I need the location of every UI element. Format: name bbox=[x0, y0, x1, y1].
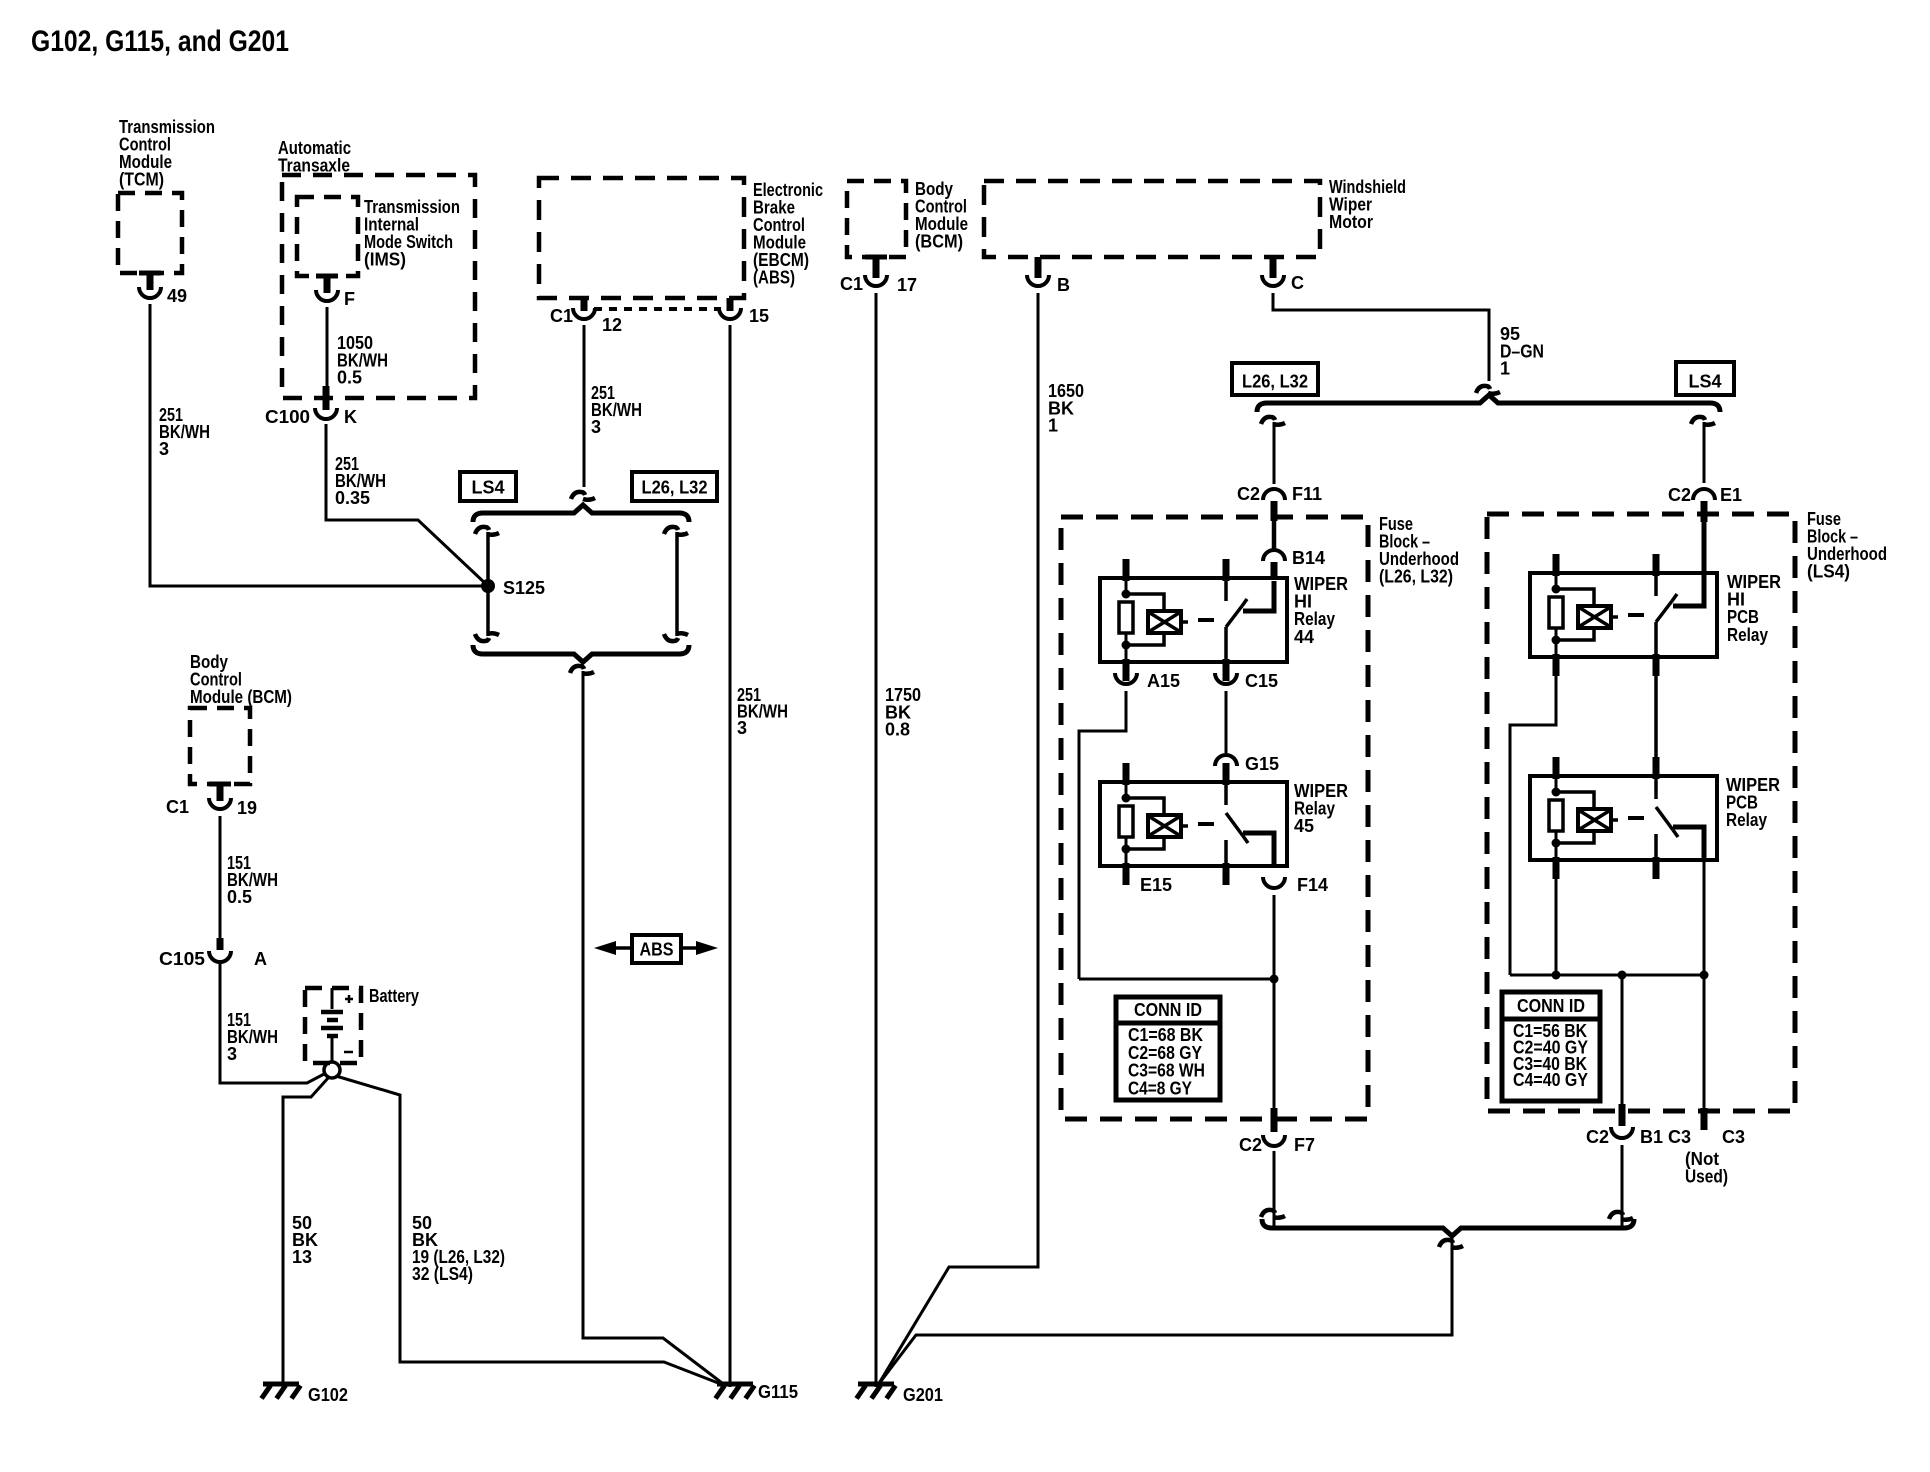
battery plates bbox=[321, 1010, 343, 1015]
svg-text:C2: C2 bbox=[1239, 1135, 1262, 1155]
svg-text:Used): Used) bbox=[1685, 1167, 1728, 1187]
label box LS4 (right) bbox=[1676, 362, 1734, 395]
connector arc pin F bbox=[316, 290, 338, 301]
wire A15 branch bbox=[1079, 691, 1126, 979]
wire 151 BK/WH 0.5 bbox=[219, 816, 222, 938]
svg-text:F14: F14 bbox=[1297, 875, 1328, 895]
relay WIPER PCB Relay bbox=[1530, 776, 1717, 860]
svg-text:C4=40 GY: C4=40 GY bbox=[1513, 1070, 1588, 1090]
svg-text:K: K bbox=[344, 407, 357, 427]
wire HI PCB switch output to PCB relay bbox=[1654, 676, 1658, 779]
svg-text:C100: C100 bbox=[265, 407, 310, 427]
svg-text:0.35: 0.35 bbox=[335, 488, 370, 508]
svg-text:3: 3 bbox=[591, 417, 601, 437]
svg-text:0.8: 0.8 bbox=[885, 720, 910, 740]
module Electronic Brake Control Module (dashed box) bbox=[539, 178, 744, 298]
module Body Control Module BCM top (dashed box) bbox=[847, 181, 906, 257]
connector arc C2 F7 bbox=[1263, 1135, 1285, 1146]
svg-text:G102, G115, and G201: G102, G115, and G201 bbox=[31, 25, 289, 58]
battery negative lead bbox=[331, 1038, 334, 1062]
svg-text:Battery: Battery bbox=[369, 986, 419, 1006]
wire break below merge brace bbox=[1439, 1240, 1463, 1248]
relay WIPER Relay 45 bbox=[1100, 782, 1287, 866]
ground G201 bbox=[858, 1382, 894, 1387]
svg-text:CONN ID: CONN ID bbox=[1517, 996, 1585, 1016]
svg-text:G201: G201 bbox=[903, 1385, 943, 1405]
svg-text:L26, L32: L26, L32 bbox=[1242, 372, 1308, 392]
connector arc C2 B1 bbox=[1611, 1127, 1633, 1138]
svg-text:(L26, L32): (L26, L32) bbox=[1379, 567, 1453, 587]
module Body Control Module left (dashed box) bbox=[190, 708, 250, 784]
wire break F7 bbox=[1261, 1210, 1285, 1218]
pin stub B1 bbox=[1619, 1104, 1626, 1126]
merge brace bottom right bbox=[1262, 1219, 1634, 1236]
svg-text:ABS: ABS bbox=[640, 940, 674, 960]
wire F11 to B14 bbox=[1272, 521, 1277, 550]
svg-text:C2: C2 bbox=[1668, 485, 1691, 505]
wire F14 down bbox=[1273, 895, 1276, 1108]
connector arc C1 17 bbox=[865, 275, 887, 286]
wire to fuse block E1 bbox=[1703, 422, 1706, 483]
svg-text:3: 3 bbox=[227, 1044, 237, 1064]
junction dot B1 drop bbox=[1618, 971, 1627, 980]
svg-text:C2: C2 bbox=[1237, 484, 1260, 504]
pin bar BCM C1 19 bbox=[209, 782, 231, 787]
svg-text:17: 17 bbox=[897, 275, 917, 295]
pin stub EBCM 12 bbox=[581, 298, 588, 311]
pin stub B14 bbox=[1271, 562, 1278, 580]
wire E1 into block bbox=[1702, 521, 1707, 577]
pin bar IMS bbox=[316, 274, 338, 279]
ABS circuit arrow right bbox=[679, 946, 698, 950]
connector arc C100 K bbox=[315, 408, 337, 419]
ground G102 bbox=[263, 1382, 299, 1387]
connector arc pin 12 bbox=[573, 308, 595, 319]
wire battery node to G115 (50 BK) bbox=[336, 1076, 726, 1386]
svg-text:Module (BCM): Module (BCM) bbox=[190, 687, 292, 707]
svg-text:(IMS): (IMS) bbox=[364, 250, 406, 270]
svg-text:Relay: Relay bbox=[1726, 810, 1767, 830]
svg-text:G15: G15 bbox=[1245, 754, 1279, 774]
ground G115 bbox=[717, 1382, 753, 1387]
fuse block underhood LS4 (dashed box) bbox=[1487, 514, 1795, 1111]
wire 1650 BK to G201 bbox=[878, 293, 1038, 1385]
wire to fuse block F11 bbox=[1273, 422, 1276, 484]
option wire LS4 break top bbox=[475, 527, 499, 535]
svg-text:C1: C1 bbox=[166, 797, 189, 817]
battery positive lead bbox=[331, 988, 334, 1009]
svg-text:Transaxle: Transaxle bbox=[278, 156, 350, 176]
svg-text:B14: B14 bbox=[1292, 548, 1325, 568]
pin stub F11 bbox=[1271, 501, 1278, 521]
relay WIPER HI Relay 44 bbox=[1100, 578, 1287, 662]
label box L26, L32 (engine option) bbox=[632, 472, 717, 501]
svg-text:CONN ID: CONN ID bbox=[1134, 1000, 1202, 1020]
wire PCB coil output down bbox=[1555, 858, 1558, 975]
svg-text:C4=8 GY: C4=8 GY bbox=[1128, 1078, 1192, 1098]
pin stub BCM 19 bbox=[217, 784, 224, 801]
pin stub F7 bbox=[1271, 1108, 1278, 1132]
connector arc A15 bbox=[1115, 673, 1137, 684]
pin stub EBCM 15 bbox=[727, 298, 734, 311]
connector arc B14 bbox=[1263, 550, 1285, 561]
svg-text:13: 13 bbox=[292, 1247, 312, 1267]
svg-text:1: 1 bbox=[1500, 359, 1510, 379]
connector arc G15 bbox=[1215, 755, 1237, 766]
box Automatic Transaxle (dashed) bbox=[282, 175, 475, 398]
pin stub C3 (not used) bbox=[1701, 1108, 1708, 1130]
module TCM (dashed box) bbox=[118, 193, 182, 273]
wire break above option brace bbox=[571, 492, 595, 500]
relay WIPER HI PCB Relay bbox=[1530, 573, 1717, 657]
pin stub TCM 49 bbox=[147, 273, 154, 290]
connector arc C2 F11 bbox=[1263, 489, 1285, 500]
pin stub BCM 17 bbox=[873, 257, 880, 278]
conn id table L26/L32 bbox=[1116, 997, 1220, 1100]
wire 1050 BK/WH bbox=[326, 307, 329, 386]
svg-text:B1: B1 bbox=[1640, 1127, 1663, 1147]
svg-text:C15: C15 bbox=[1245, 671, 1278, 691]
svg-text:B: B bbox=[1057, 275, 1070, 295]
svg-text:A: A bbox=[254, 949, 267, 969]
wire break B1 bbox=[1609, 1212, 1633, 1220]
connector arc pin C bbox=[1262, 275, 1284, 286]
wire B1 to merge brace bbox=[1621, 1145, 1624, 1227]
svg-text:F: F bbox=[344, 289, 355, 309]
connector arc C15 bbox=[1215, 673, 1237, 684]
svg-text:Relay: Relay bbox=[1727, 625, 1768, 645]
svg-text:19: 19 bbox=[237, 798, 257, 818]
option wire LS4 bbox=[486, 532, 490, 636]
svg-text:F7: F7 bbox=[1294, 1135, 1315, 1155]
svg-text:49: 49 bbox=[167, 286, 187, 306]
option wire L26/L32 bbox=[675, 532, 679, 636]
wire 151 BK/WH 3 to battery node bbox=[220, 964, 326, 1083]
ABS circuit arrow left bbox=[614, 946, 634, 950]
connector arc F14 bbox=[1263, 877, 1285, 888]
svg-text:32 (LS4): 32 (LS4) bbox=[412, 1264, 473, 1284]
battery plus sign bbox=[345, 995, 353, 1003]
svg-text:LS4: LS4 bbox=[1688, 372, 1721, 392]
svg-text:1: 1 bbox=[1048, 416, 1058, 436]
svg-text:15: 15 bbox=[749, 306, 769, 326]
wire PCB relay output down bbox=[1703, 860, 1706, 975]
option brace lower bbox=[473, 645, 689, 662]
wire break above right option brace bbox=[1476, 386, 1500, 394]
battery minus sign bbox=[344, 1051, 353, 1054]
wire to G115 from splice network bbox=[583, 671, 726, 1386]
option brace upper bbox=[473, 505, 689, 522]
junction line relay 44/45 outputs bbox=[1079, 978, 1274, 981]
svg-text:(LS4): (LS4) bbox=[1807, 562, 1850, 582]
wire 1750 BK to G201 bbox=[875, 293, 878, 1387]
junction dot coil bbox=[1552, 971, 1561, 980]
pin stub E15 bbox=[1123, 863, 1130, 884]
wire C15 to G15 bbox=[1225, 691, 1228, 753]
wire F7 to merge brace bbox=[1273, 1151, 1276, 1227]
pin stub motor C bbox=[1270, 257, 1277, 278]
svg-text:C1: C1 bbox=[550, 306, 573, 326]
svg-text:E1: E1 bbox=[1720, 485, 1742, 505]
option wire break to F11 bbox=[1261, 417, 1285, 425]
svg-text:C3: C3 bbox=[1668, 1127, 1691, 1147]
pin stub G15 bbox=[1223, 765, 1230, 784]
module Transmission Internal Mode Switch (dashed box) bbox=[297, 197, 358, 276]
option wire L26/L32 break top bbox=[664, 527, 688, 535]
option brace right bbox=[1257, 395, 1720, 412]
svg-text:3: 3 bbox=[737, 718, 747, 738]
fuse block underhood L26/L32 (dashed box) bbox=[1061, 517, 1368, 1119]
wire 251 BK/WH from pin 12 bbox=[583, 325, 586, 487]
splice S125 bbox=[481, 579, 495, 593]
junction dot relay output bbox=[1700, 971, 1709, 980]
pin stub IMS F bbox=[324, 276, 331, 293]
junction line LS4 outputs bbox=[1510, 974, 1704, 977]
wire 251 BK/WH 0.35 to S125 bbox=[326, 424, 487, 585]
pin bar BCM C1 17 bbox=[865, 255, 887, 260]
label box L26, L32 (right) bbox=[1232, 363, 1318, 395]
svg-text:E15: E15 bbox=[1140, 875, 1172, 895]
svg-text:F11: F11 bbox=[1292, 484, 1322, 504]
wire break below lower brace bbox=[570, 666, 594, 674]
label box LS4 (engine option) bbox=[460, 472, 516, 501]
svg-text:Motor: Motor bbox=[1329, 212, 1373, 232]
connector arc pin 49 bbox=[139, 287, 161, 298]
pin bar TCM bbox=[139, 271, 161, 276]
svg-text:S125: S125 bbox=[503, 578, 545, 598]
svg-text:G102: G102 bbox=[308, 1385, 348, 1405]
svg-text:12: 12 bbox=[602, 315, 622, 335]
option wire L26/L32 break bottom bbox=[664, 633, 688, 641]
pin stub C100 K bbox=[323, 386, 330, 410]
svg-text:C2: C2 bbox=[1586, 1127, 1609, 1147]
connector arc C105 A bbox=[209, 951, 231, 962]
svg-text:(BCM): (BCM) bbox=[915, 232, 963, 252]
pin stub motor B bbox=[1035, 257, 1042, 278]
option wire LS4 break bottom bbox=[475, 633, 499, 641]
svg-text:0.5: 0.5 bbox=[227, 887, 252, 907]
option wire break to E1 bbox=[1691, 417, 1715, 425]
pin stub E1 bbox=[1701, 501, 1708, 522]
pin stub C105 A bbox=[217, 938, 224, 950]
module Windshield Wiper Motor (dashed box) bbox=[984, 181, 1320, 257]
wire 95 D-GN from pin C bbox=[1273, 293, 1489, 381]
ground wire to G201 bbox=[878, 1236, 1452, 1385]
connector arc C2 E1 bbox=[1693, 489, 1715, 500]
conn id table LS4 bbox=[1502, 992, 1600, 1101]
battery (dashed box) bbox=[305, 988, 361, 1063]
svg-text:C105: C105 bbox=[159, 949, 205, 969]
svg-text:(TCM): (TCM) bbox=[119, 170, 164, 190]
svg-text:LS4: LS4 bbox=[471, 478, 504, 498]
battery ground terminal node bbox=[324, 1062, 340, 1078]
svg-text:0.5: 0.5 bbox=[337, 368, 362, 388]
svg-text:A15: A15 bbox=[1147, 671, 1180, 691]
wire 251 BK/WH from TCM 49 bbox=[150, 304, 486, 586]
svg-text:C: C bbox=[1291, 273, 1304, 293]
connector face C1 (dotted line) bbox=[594, 307, 721, 311]
connector arc C1 19 bbox=[209, 798, 231, 809]
svg-text:44: 44 bbox=[1294, 627, 1314, 647]
wire down to C3 bbox=[1703, 975, 1706, 1108]
wire HI PCB coil output bbox=[1510, 676, 1556, 975]
connector arc pin 15 bbox=[719, 308, 741, 319]
connector arc pin B bbox=[1027, 275, 1049, 286]
svg-text:G115: G115 bbox=[758, 1382, 798, 1402]
wire down to B1 bbox=[1621, 975, 1624, 1104]
junction dot F14/A15 bbox=[1270, 975, 1279, 984]
svg-text:C1: C1 bbox=[840, 274, 863, 294]
svg-text:C3: C3 bbox=[1722, 1127, 1745, 1147]
wire battery node to G102 bbox=[283, 1077, 329, 1387]
svg-text:(ABS): (ABS) bbox=[753, 268, 795, 288]
svg-text:45: 45 bbox=[1294, 816, 1314, 836]
svg-text:L26, L32: L26, L32 bbox=[642, 478, 708, 498]
svg-text:3: 3 bbox=[159, 439, 169, 459]
ABS label box bbox=[632, 935, 681, 963]
wire 251 BK/WH from pin 15 to G115 bbox=[729, 325, 732, 1387]
